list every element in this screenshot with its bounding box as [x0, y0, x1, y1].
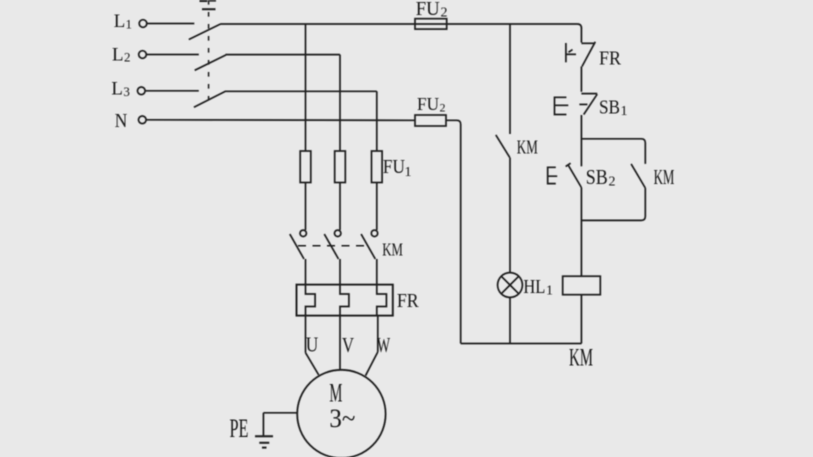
svg-text:L: L — [111, 79, 123, 100]
svg-text:L: L — [112, 44, 124, 65]
svg-text:PE: PE — [230, 414, 249, 443]
svg-text:KM: KM — [654, 165, 675, 189]
svg-text:KM: KM — [569, 345, 593, 372]
svg-text:SB: SB — [599, 97, 620, 119]
svg-text:FU: FU — [416, 0, 441, 20]
svg-text:1: 1 — [621, 104, 628, 119]
svg-text:KM: KM — [382, 240, 403, 260]
svg-text:FR: FR — [599, 48, 622, 70]
svg-text:V: V — [342, 333, 354, 357]
svg-text:2: 2 — [124, 50, 131, 65]
svg-text:2: 2 — [441, 6, 448, 21]
svg-text:1: 1 — [546, 284, 553, 299]
svg-text:SB: SB — [586, 165, 608, 189]
svg-text:2: 2 — [440, 101, 446, 115]
svg-text:3: 3 — [123, 84, 129, 99]
svg-text:FU: FU — [417, 94, 439, 114]
svg-text:N: N — [115, 110, 128, 132]
svg-text:FR: FR — [397, 290, 419, 312]
svg-text:3~: 3~ — [329, 404, 355, 433]
svg-text:W: W — [377, 333, 391, 357]
svg-text:2: 2 — [609, 175, 616, 190]
svg-text:U: U — [306, 332, 319, 356]
svg-text:KM: KM — [517, 137, 538, 159]
svg-text:HL: HL — [523, 276, 545, 298]
svg-text:FU: FU — [383, 156, 405, 178]
svg-text:L: L — [114, 11, 126, 32]
svg-text:1: 1 — [405, 165, 412, 180]
svg-text:1: 1 — [126, 16, 133, 31]
